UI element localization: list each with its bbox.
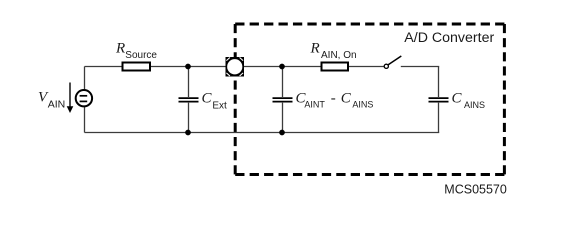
label C_Ext <box>202 90 228 111</box>
svg-text:-: - <box>331 90 336 106</box>
A/D Converter dashed boundary box <box>235 24 504 175</box>
svg-text:C: C <box>202 90 213 106</box>
label C_AINT - C_AINS <box>296 90 374 109</box>
svg-text:A/D Converter: A/D Converter <box>404 30 494 46</box>
wire: C_AINS branch <box>438 67 440 133</box>
resistor R_Source <box>123 63 151 71</box>
capacitor C_AINS <box>429 98 449 102</box>
arrow: V_AIN polarity arrow <box>67 83 74 114</box>
svg-text:AINS: AINS <box>352 99 373 109</box>
label R_AIN,On <box>310 40 357 61</box>
resistor R_AIN,On <box>322 63 349 71</box>
svg-text:AIN, On: AIN, On <box>321 50 357 61</box>
svg-text:C: C <box>341 90 352 106</box>
wire: C_AINT branch <box>282 67 284 133</box>
svg-text:Source: Source <box>125 50 157 61</box>
node: junction top C_Ext <box>185 64 191 70</box>
svg-text:MCS05570: MCS05570 <box>444 182 507 196</box>
wire: left vertical branch through voltage source <box>84 67 86 133</box>
label V_AIN <box>38 89 65 110</box>
node: junction bottom C_AINT <box>279 130 285 136</box>
pin symbol (analog input pad) <box>226 57 245 77</box>
node: junction top C_AINT <box>279 64 285 70</box>
svg-text:AINS: AINS <box>464 100 485 110</box>
label R_Source <box>115 41 157 61</box>
wire: bottom rail <box>85 132 440 134</box>
node: junction bottom C_Ext <box>185 130 191 136</box>
svg-text:AIN: AIN <box>48 99 66 111</box>
voltage source V_AIN <box>76 90 92 106</box>
svg-text:Ext: Ext <box>212 100 227 111</box>
svg-text:C: C <box>452 90 463 106</box>
svg-text:R: R <box>115 41 125 57</box>
wire: C_Ext branch <box>188 67 190 133</box>
switch (sampling switch) <box>384 56 401 68</box>
svg-text:AINT: AINT <box>304 99 325 109</box>
svg-text:R: R <box>310 40 320 56</box>
capacitor C_Ext <box>179 98 199 102</box>
label C_AINS <box>452 90 486 110</box>
wire: top rail right of switch <box>401 66 439 68</box>
capacitor C_AINT-C_AINS <box>273 98 293 102</box>
wire: top rail from source to switch <box>85 66 385 68</box>
